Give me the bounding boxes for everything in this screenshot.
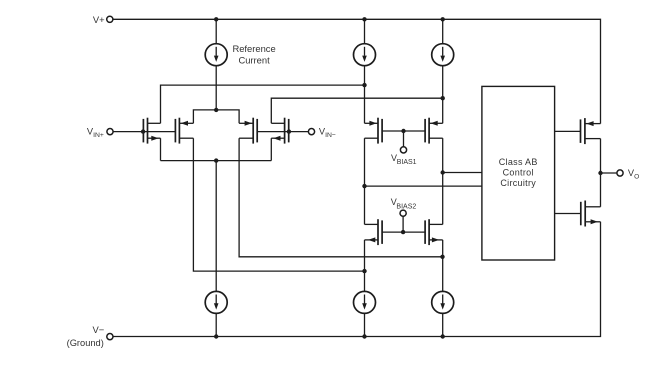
wire class AB box to Q9 gate: [555, 130, 581, 132]
wire I6 to V- rail: [442, 313, 444, 336]
transistor Q6 (PMOS cascode, VBIAS1 right): [425, 118, 443, 144]
junction I3 / Q4 drain: [441, 96, 445, 100]
junction class AB tap left: [362, 184, 366, 188]
transistor Q4 (NMOS, input V_IN-, outer right): [271, 118, 288, 144]
terminal VBIAS1: [400, 147, 406, 153]
junction bottom rail / I5: [362, 334, 366, 338]
transistor Q10 (NMOS output): [581, 201, 601, 227]
svg-text:Circuitry: Circuitry: [500, 178, 536, 188]
junction Q2 drain / I5: [362, 269, 366, 273]
wire Q3/Q4 gates to VIN- terminal: [257, 131, 308, 133]
wire Q2 drain down then right to I5 branch: [193, 138, 364, 271]
wire Q4 drain up and over to I3 node: [271, 98, 442, 123]
transistor Q7 (NMOS cascode, VBIAS2 left): [365, 219, 383, 245]
transistor Q1 (NMOS, input V_IN+, outer left): [143, 118, 160, 144]
wire I3 down to Q6 drain: [442, 66, 444, 124]
wire I1 to PMOS pair sources (node at y=109.9): [215, 66, 217, 110]
wire class AB box to Q10 gate: [555, 213, 581, 215]
wire tap right to class AB box: [443, 172, 482, 174]
wire output node Q9 to Q10: [600, 139, 602, 207]
junction Q4 gate: [287, 129, 291, 133]
wire Q8 source down to I6: [442, 240, 444, 292]
svg-text:VIN+: VIN+: [87, 126, 104, 139]
wire Q3 drain down then right to I6 branch: [239, 138, 442, 257]
wire I4 to V- rail: [215, 313, 217, 336]
junction VBIAS2 gates: [401, 230, 405, 234]
junction output node: [598, 171, 602, 175]
junction bottom rail / I4: [214, 334, 218, 338]
terminal VO: [617, 170, 623, 176]
class AB control circuitry block U1: [482, 86, 555, 260]
current source I3: [432, 44, 454, 66]
wire I5 to V- rail: [364, 313, 366, 336]
wire Q1 source down to tail rail: [160, 138, 162, 160]
junction tail rail / I4: [214, 158, 218, 162]
svg-text:V+: V+: [93, 14, 105, 25]
current source I5: [354, 291, 376, 313]
junction VBIAS1 gates: [401, 129, 405, 133]
transistor Q2 (PMOS, input V_IN+, inner left): [175, 118, 193, 144]
terminal V+: [107, 16, 113, 22]
junction top rail / I2: [362, 17, 366, 21]
label class AB control circuitry: [499, 157, 538, 188]
junction Q1 gate: [141, 129, 145, 133]
wire VIN+ to Q1/Q2 gates: [113, 131, 175, 133]
junction I1 / PMOS pair sources: [214, 108, 218, 112]
junction Q3 drain / I6: [440, 255, 444, 259]
wire V- rail (bottom, runs right then up to output NMOS source): [113, 222, 601, 337]
svg-text:VBIAS2: VBIAS2: [391, 197, 417, 210]
wire VBIAS2 gate bus: [382, 231, 425, 233]
wire VBIAS1 stub: [403, 131, 405, 147]
junction bottom rail / I6: [441, 334, 445, 338]
svg-text:(Ground): (Ground): [67, 338, 104, 348]
label Reference Current: [232, 43, 275, 66]
wire VBIAS2 stub: [402, 216, 404, 232]
wire rail to I2: [364, 19, 366, 43]
junction I2 / Q1 drain: [362, 83, 366, 87]
wire Q4 source down to tail rail: [270, 138, 272, 160]
terminal VIN-: [308, 129, 314, 135]
wire VBIAS1 gate bus: [382, 130, 425, 132]
svg-text:Reference: Reference: [232, 43, 275, 54]
transistor Q8 (NMOS cascode, VBIAS2 right): [425, 219, 443, 245]
wire I2 down to Q5 drain: [364, 66, 366, 124]
wire Q2/Q3 sources to I1: [193, 110, 239, 123]
wire Q7 source down to I5: [364, 240, 366, 292]
svg-text:Class AB: Class AB: [499, 157, 538, 167]
wire Q5 source down to Q7 drain: [364, 138, 366, 224]
svg-text:VBIAS1: VBIAS1: [391, 153, 417, 166]
junction class AB tap right: [441, 170, 445, 174]
wire Q6 source down to Q8 drain: [442, 138, 444, 224]
wire tap left to class AB box: [365, 185, 482, 187]
svg-text:V−: V−: [92, 324, 104, 335]
current source I2: [354, 44, 376, 66]
wire rail to I1: [215, 19, 217, 43]
terminal V-: [107, 334, 113, 340]
current source I4: [205, 291, 227, 313]
wire V+ rail (top, runs right then down to output PMOS drain): [113, 19, 601, 123]
wire rail to I3: [442, 19, 444, 43]
transistor Q9 (PMOS output): [581, 118, 601, 144]
terminal VIN+: [107, 129, 113, 135]
junction top rail / I3: [441, 17, 445, 21]
transistor Q5 (PMOS cascode, VBIAS1 left): [365, 118, 383, 144]
wire Q1 drain up and over to I2 node: [161, 85, 365, 123]
transistor Q3 (PMOS, input V_IN-, inner right): [239, 118, 257, 144]
wire tail rail down to I4: [215, 161, 217, 292]
current source I1 (reference current): [205, 44, 227, 66]
svg-text:VIN−: VIN−: [319, 126, 336, 139]
wire NMOS pair tail rail: [161, 160, 272, 162]
junction top rail / I1: [214, 17, 218, 21]
svg-text:Current: Current: [238, 54, 270, 65]
svg-text:Control: Control: [503, 167, 534, 177]
svg-text:VO: VO: [628, 168, 639, 181]
wire output node to VO terminal: [601, 172, 617, 174]
current source I6: [432, 291, 454, 313]
terminal VBIAS2: [400, 210, 406, 216]
